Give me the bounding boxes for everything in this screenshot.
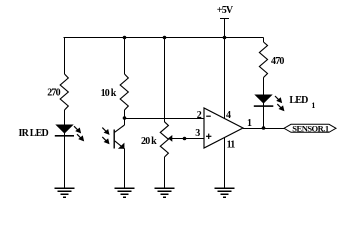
svg-text:LED: LED bbox=[289, 95, 308, 106]
svg-text:1: 1 bbox=[311, 101, 315, 110]
svg-text:+5V: +5V bbox=[217, 5, 234, 16]
svg-text:270: 270 bbox=[47, 88, 60, 99]
svg-text:10 k: 10 k bbox=[101, 88, 117, 99]
svg-text:IR LED: IR LED bbox=[19, 128, 49, 139]
svg-text:470: 470 bbox=[271, 56, 284, 67]
svg-text:SENSOR.1: SENSOR.1 bbox=[292, 124, 329, 134]
svg-text:11: 11 bbox=[227, 140, 236, 151]
svg-text:20 k: 20 k bbox=[141, 136, 157, 147]
